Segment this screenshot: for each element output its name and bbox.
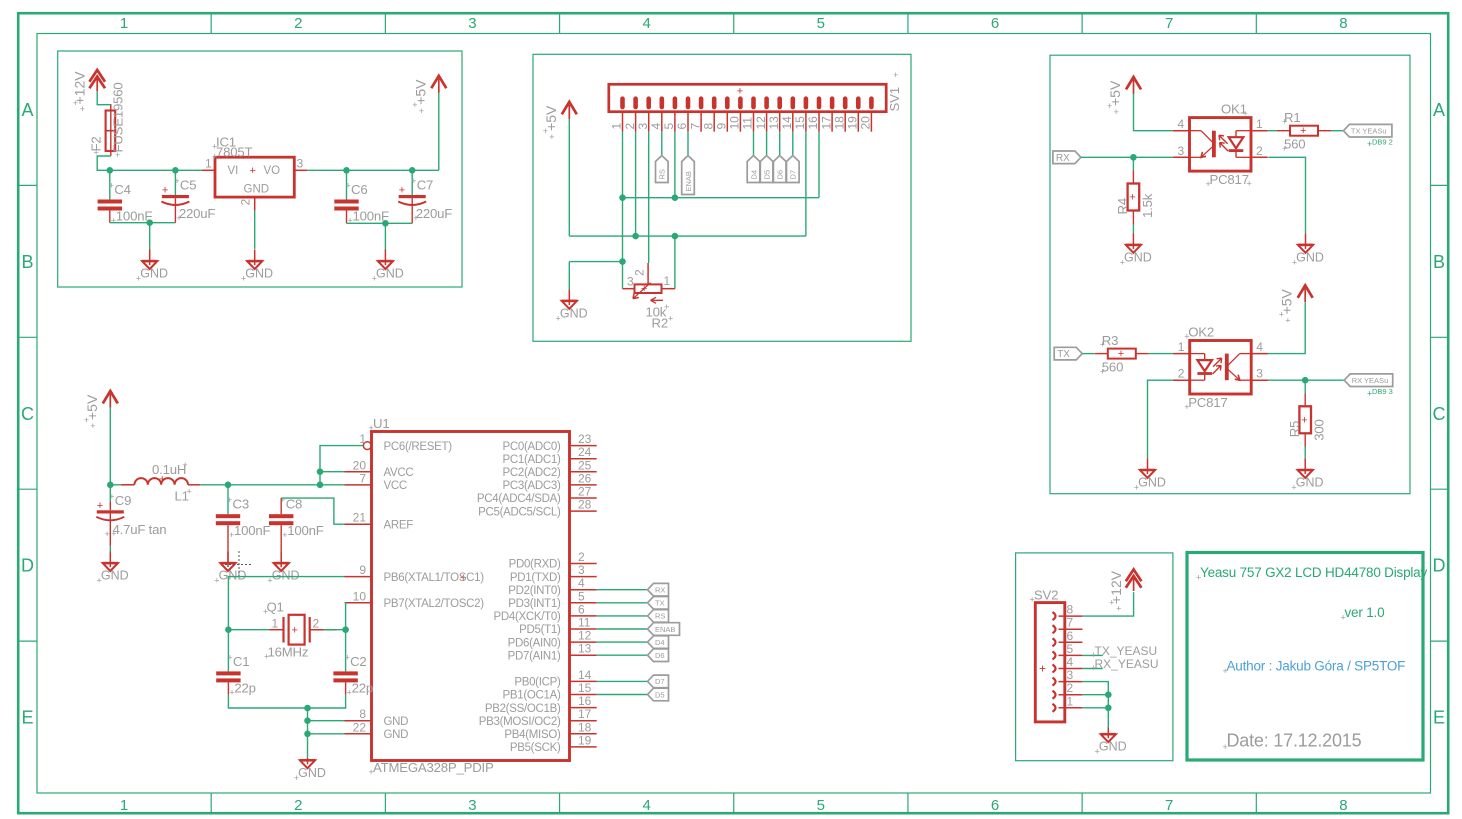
SV1 pin 9 [715,112,729,132]
resistor R3 560 [1095,333,1149,377]
svg-text:15: 15 [578,681,592,695]
wire SV2 pin3 to ground [1082,682,1108,728]
svg-text:+: + [893,70,898,80]
svg-text:PB5(SCK): PB5(SCK) [510,742,561,754]
wire VCC stub [320,484,345,486]
wire +5V supply down [568,118,570,236]
SV2 pin 5 [1053,642,1083,660]
svg-text:B: B [1433,252,1445,272]
svg-text:C8: C8 [286,497,302,512]
U1 pin 5 PD3(INT1) [508,589,596,610]
resistor R5 300 [1287,393,1327,447]
svg-text:2: 2 [623,123,637,130]
svg-text:+: + [1367,389,1372,399]
junction C3/rail [225,482,232,489]
C7 lower pin [411,198,413,223]
ground (LCD) [556,289,588,323]
wire U1 to ENAB flag [597,628,648,630]
svg-text:100nF: 100nF [234,523,271,538]
svg-text:GND: GND [384,716,409,728]
svg-text:RX: RX [1056,153,1070,164]
svg-text:4: 4 [642,797,650,814]
wire TX to R3 [1082,353,1095,355]
svg-text:3: 3 [468,15,476,32]
svg-text:C2: C2 [350,654,366,669]
title block [1187,553,1427,761]
svg-text:+: + [345,652,350,662]
svg-text:GND: GND [140,267,168,281]
svg-text:28: 28 [578,498,592,512]
net flag D5 (U1) [648,688,669,701]
svg-text:6: 6 [675,123,689,130]
wire to ground [149,223,151,250]
svg-text:7: 7 [1165,15,1173,32]
junction VCC [317,482,324,489]
+5V supply (OK1) [1107,77,1141,117]
svg-text:12: 12 [754,116,768,130]
svg-text:D7: D7 [655,677,665,686]
svg-text:+: + [737,86,743,98]
svg-text:C6: C6 [351,182,367,197]
svg-text:TX YEASu: TX YEASu [1351,127,1387,136]
svg-text:22p: 22p [234,680,255,695]
wire junction to R4 [1132,157,1134,170]
SV1 pin 15 [793,112,807,132]
svg-text:+: + [263,607,268,617]
SV1 pin 5 [662,112,676,132]
svg-text:3: 3 [1178,144,1185,158]
+12V supply (SV2) [1108,570,1141,614]
svg-text:GND: GND [272,569,300,583]
wire crystal to C2 [345,630,347,672]
svg-text:PD7(AIN1): PD7(AIN1) [508,650,561,662]
wire U1 to D7 flag [597,680,648,682]
C4 lower pin [109,211,111,223]
svg-text:+: + [1039,662,1046,676]
wire C8 to AREF [281,498,344,524]
svg-text:+: + [111,216,116,226]
svg-text:2: 2 [294,797,302,814]
net flag TX YEASu (DB9 2) [1343,124,1392,137]
junction C7/rail [409,167,416,174]
svg-text:GND: GND [219,569,247,583]
svg-text:+: + [543,126,548,136]
svg-text:+: + [183,460,188,470]
svg-text:4: 4 [1178,117,1185,131]
svg-text:+: + [399,185,405,197]
svg-text:GND: GND [376,267,404,281]
svg-text:17: 17 [819,116,833,130]
svg-text:23: 23 [578,432,592,446]
svg-text:19: 19 [578,733,592,747]
svg-text:10: 10 [728,116,742,130]
svg-text:25: 25 [578,458,592,472]
svg-text:+: + [187,487,192,497]
svg-text:GND: GND [384,729,409,741]
svg-text:1: 1 [610,123,624,130]
wire SV1 pin4 to RS flag [661,132,663,156]
svg-text:2: 2 [1067,681,1074,695]
svg-text:+: + [90,421,95,431]
U1 pin 3 PD1(TXD) [510,563,597,584]
ground (regulator output) [372,250,404,284]
svg-text:17: 17 [578,707,592,721]
svg-text:PD1(TXD): PD1(TXD) [510,572,561,584]
svg-text:5: 5 [817,797,825,814]
svg-text:PC817: PC817 [1188,395,1227,410]
svg-text:+: + [109,181,114,191]
svg-text:+: + [162,185,168,197]
svg-text:7: 7 [688,123,702,130]
U1 pin 24 PC1(ADC1) [502,445,596,466]
SV2 pin 8 [1053,603,1083,621]
ground (C9) [97,552,129,586]
svg-text:3: 3 [468,797,476,814]
svg-text:7: 7 [1165,797,1173,814]
wire C6-C7 bottom rail [347,222,413,224]
junction ground rail [304,705,311,712]
wire OK1 pin2 down [1268,157,1305,233]
net flag ENAB [682,156,695,195]
svg-text:FUSE19560: FUSE19560 [111,82,126,152]
wire SV2 pin4 RX_YEASU [1082,668,1102,670]
svg-text:+: + [369,423,374,433]
svg-text:3: 3 [636,123,650,130]
wire R1 to TX YEASu flag [1331,130,1343,132]
svg-text:11: 11 [741,117,755,130]
wire rail to C6 [346,170,348,199]
junction pin1/GND rail [619,194,626,201]
svg-text:DB9 2: DB9 2 [1372,138,1393,147]
junction SV2 pin1 [1105,705,1112,712]
svg-text:22p: 22p [352,680,373,695]
wire SV1 pin5 down to GND rail [674,132,676,198]
svg-text:GND: GND [245,267,273,281]
svg-text:+: + [1116,604,1121,614]
svg-text:8: 8 [359,707,366,721]
svg-text:A: A [1433,100,1445,120]
svg-text:2: 2 [578,550,585,564]
svg-text:RX: RX [655,586,665,595]
wire SV1 pin14 to D7 flag [792,132,794,156]
svg-text:+: + [346,181,351,191]
svg-text:4: 4 [1067,655,1074,669]
wire +5V down to L1 [109,407,111,485]
svg-text:C9: C9 [115,493,131,508]
junction R2-1/+5V rail [672,233,679,240]
capacitor C7 [398,176,452,223]
svg-text:GND: GND [298,766,326,780]
net flag TX (U1) [648,597,669,610]
svg-text:1: 1 [205,157,212,171]
wire SV1 pin12 to D5 flag [766,132,768,156]
svg-text:+: + [1030,595,1035,605]
svg-text:5: 5 [1067,642,1074,656]
wire SV2 pin8 to +12V [1082,592,1133,616]
svg-text:+: + [294,773,299,783]
net flag RX YEASu (DB9 3) [1344,374,1393,387]
svg-text:PD3(INT1): PD3(INT1) [508,598,561,610]
svg-text:C5: C5 [180,178,196,193]
wire SV2 pin1 [1082,707,1108,709]
SV1 pin 18 [832,112,846,132]
wire SV1 pin11 to D4 flag [753,132,755,156]
svg-text:1: 1 [359,432,366,446]
optocoupler section frame [1050,55,1410,494]
svg-text:C7: C7 [417,178,433,193]
capacitor C4 [98,181,153,226]
svg-text:+: + [1300,125,1306,137]
svg-text:+: + [229,687,234,697]
wire XTAL2 to crystal [345,603,346,630]
svg-text:SV1: SV1 [887,87,902,111]
wire OK2 pin2 down [1148,380,1173,458]
svg-text:OK2: OK2 [1188,325,1214,340]
svg-text:2: 2 [239,199,253,206]
svg-text:+: + [413,213,418,223]
svg-text:VO: VO [264,165,281,177]
svg-text:9: 9 [359,563,366,577]
svg-text:13: 13 [767,116,781,130]
svg-text:1: 1 [1178,340,1185,354]
svg-text:D: D [21,556,34,576]
wire pin1 column to R2 pin3 [622,262,624,289]
svg-text:+: + [1109,598,1114,608]
svg-text:16MHz: 16MHz [268,645,309,660]
inductor L1 0.1uH [110,460,200,504]
svg-text:ENAB: ENAB [684,171,693,191]
wire IC1 GND pin [254,211,256,249]
svg-text:+: + [369,767,374,777]
U1 pin 8 GND [345,707,409,728]
svg-text:22: 22 [353,720,367,734]
svg-text:PC0(ADC0): PC0(ADC0) [502,441,560,453]
SV1 pin 7 [688,112,702,132]
U1 pin 14 PB0(ICP) [514,668,596,689]
junction C1/crystal [225,626,232,633]
junction GND drop [146,219,153,226]
svg-text:+: + [1247,179,1252,189]
svg-text:4: 4 [1256,340,1263,354]
net flag ENAB (U1) [648,623,680,636]
svg-text:RS: RS [658,169,667,179]
svg-text:VI: VI [228,165,239,177]
net flag D4 (U1) [648,636,669,649]
ground (R5) [1291,458,1323,492]
wire to R5 [1304,380,1306,393]
svg-text:ver 1.0: ver 1.0 [1345,605,1385,620]
svg-text:D5: D5 [762,170,771,180]
svg-text:+: + [1282,117,1287,127]
wire rail up to +5V [438,92,440,170]
svg-text:DB9 3: DB9 3 [1372,387,1393,396]
svg-text:6: 6 [1067,629,1074,643]
svg-text:+: + [73,98,78,108]
svg-text:D: D [1433,556,1446,576]
+5V rail (LCD) [569,235,806,237]
svg-text:+: + [664,302,669,312]
C9 upper pin [109,501,111,510]
net flag D6 (U1) [648,649,669,662]
U1 pin 9 PB6(XTAL1/TOSC1) [345,563,485,584]
svg-text:8: 8 [1339,15,1347,32]
svg-text:1: 1 [1067,694,1074,708]
svg-text:AREF: AREF [384,519,414,531]
wire R5 to ground [1304,446,1306,458]
svg-text:+: + [292,625,298,637]
svg-text:5: 5 [662,123,676,130]
svg-text:VCC: VCC [384,480,407,492]
SV1 pin 2 [623,112,637,132]
svg-text:+: + [1243,109,1248,119]
svg-text:13: 13 [578,642,592,656]
U1 pin 18 PB4(MISO) [504,720,596,741]
wire U1 to RS flag [597,615,648,617]
net flag D7 (U1) [648,675,669,688]
svg-text:20: 20 [859,116,873,130]
wire to U1 pin22 [308,733,345,735]
svg-text:+: + [136,274,141,284]
svg-text:+: + [1120,257,1125,267]
svg-text:18: 18 [578,720,592,734]
svg-text:GND: GND [1124,250,1152,264]
C9 lower pin [109,514,111,546]
voltage regulator IC1 7805T [202,135,307,211]
svg-text:PD6(AIN0): PD6(AIN0) [508,637,561,649]
svg-text:8: 8 [701,123,715,130]
svg-text:2: 2 [313,617,320,631]
svg-text:5: 5 [578,589,585,603]
junction C2/crystal [342,626,349,633]
wire AVCC stub [320,471,345,473]
crystal Q1 16MHz [228,600,345,662]
svg-text:+: + [229,530,234,540]
SV1 pin 13 [767,112,781,132]
svg-text:10: 10 [353,589,367,603]
svg-text:27: 27 [578,485,592,499]
svg-text:4: 4 [649,123,663,130]
svg-text:+: + [1367,139,1372,149]
svg-text:26: 26 [578,471,592,485]
svg-text:PB6(XTAL1/TOSC1): PB6(XTAL1/TOSC1) [384,572,485,584]
svg-text:220uF: 220uF [416,206,453,221]
wire SV2 pin2 [1082,694,1108,696]
svg-text:PC4(ADC4/SDA): PC4(ADC4/SDA) [477,493,561,505]
svg-text:A: A [21,100,33,120]
svg-text:+: + [1223,666,1228,676]
svg-text:+: + [1285,315,1290,325]
wire C4-C5 bottom rail [110,222,176,224]
svg-text:+: + [1118,348,1124,360]
wire SV1 pin15 down to +5V rail [805,132,807,236]
svg-text:PD5(T1): PD5(T1) [519,624,561,636]
svg-text:C: C [21,404,34,424]
U1 pin 16 PB2(SS/OC1B) [485,694,597,715]
wire crystal to C1 [227,630,229,672]
U1 pin 25 PC2(ADC2) [502,458,596,479]
wire +5V rail down to R2 pin1 [674,236,676,289]
junction AVCC [317,468,324,475]
svg-text:+: + [1196,573,1201,583]
svg-text:300: 300 [1312,419,1327,440]
svg-text:C1: C1 [233,654,249,669]
wire rail to C7 [411,170,413,195]
svg-text:7805T: 7805T [216,145,253,160]
optocoupler OK1 PC817 [1173,102,1268,190]
junction pin22 [304,731,311,738]
ground (SV2) [1095,728,1127,757]
U1 pin 27 PC4(ADC4/SDA) [477,485,597,506]
wire SV1 pin6 to ENAB flag [687,132,689,156]
svg-text:6: 6 [991,15,999,32]
svg-text:+: + [1114,107,1119,117]
svg-text:+: + [84,415,89,425]
wire SV1 pin16 down to GND rail [818,132,820,198]
svg-text:+: + [174,176,179,186]
wire XTAL1 to crystal [228,577,344,630]
svg-text:Author : Jakub Góra / SP5TOF: Author : Jakub Góra / SP5TOF [1227,659,1406,674]
ground (R4) [1120,233,1152,267]
svg-text:16: 16 [806,116,820,130]
wire U1 to RX flag [597,589,648,591]
svg-text:+: + [1091,663,1096,673]
svg-text:+: + [80,104,85,114]
svg-text:+: + [1184,332,1189,342]
wire L1 to VCC rail [200,484,320,486]
svg-text:4.7uF tan: 4.7uF tan [113,522,167,537]
U1 pin 23 PC0(ADC0) [502,432,596,453]
svg-text:+: + [1282,144,1287,154]
U1 pin 20 AVCC [345,458,414,479]
net flag RX (U1) [648,583,669,596]
C5 lower pin [174,198,176,223]
svg-text:PC2(ADC2): PC2(ADC2) [502,467,560,479]
net flag D7 [787,156,800,183]
svg-text:9: 9 [715,123,729,130]
svg-text:U1: U1 [373,416,389,431]
svg-text:GND: GND [560,306,588,320]
junction R5/RX YEASu [1302,377,1309,384]
wire R4 to ground [1132,225,1134,234]
SV1 pin 12 [754,112,768,132]
svg-text:Date: 17.12.2015: Date: 17.12.2015 [1227,731,1362,751]
svg-text:4: 4 [578,576,585,590]
svg-text:+: + [176,213,181,223]
svg-text:+: + [1341,613,1346,623]
SV1 pin 8 [701,112,715,132]
U1 pin 1 PC6(/RESET) [359,432,452,453]
svg-text:+: + [212,152,217,162]
resistor R1 560 [1277,110,1331,154]
U1 pin 11 PD5(T1) [519,616,597,637]
capacitor C9 4.7uF [96,491,131,538]
svg-text:2: 2 [1256,144,1263,158]
SV1 pin 20 [859,112,873,132]
+5V supply (OK2) [1279,285,1313,325]
microcontroller U1 ATMEGA328P_PDIP (body) [369,416,570,777]
net flag D5 [760,156,773,183]
ground (OK1 pin2) [1292,233,1324,267]
svg-text:16: 16 [578,694,592,708]
svg-text:8: 8 [1339,797,1347,814]
wire C1-C2 ground rail [228,695,345,708]
svg-text:+: + [419,106,424,116]
svg-text:D7: D7 [789,170,798,180]
SV1 pin 6 [675,112,689,132]
svg-text:PB4(MISO): PB4(MISO) [504,729,561,741]
SV2 pin 3 [1053,668,1083,686]
svg-text:6: 6 [991,797,999,814]
